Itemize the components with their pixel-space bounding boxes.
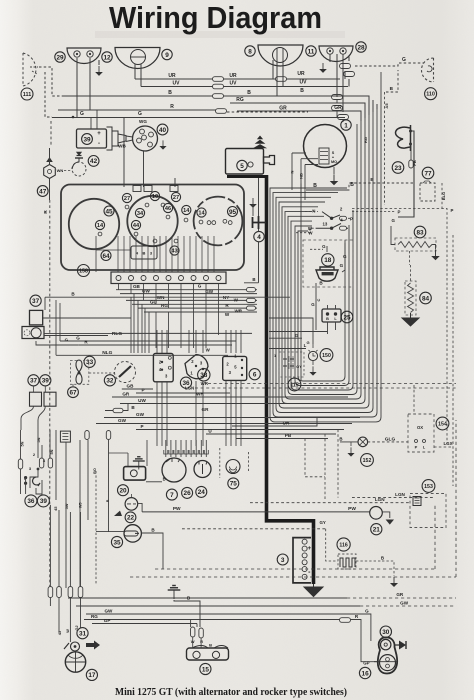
node 6 (249, 369, 260, 380)
svg-text:46: 46 (165, 206, 171, 212)
wiper motor 37 (30, 310, 43, 325)
svg-text:B: B (339, 436, 342, 441)
ground distributor (159, 140, 166, 149)
svg-text:27: 27 (124, 196, 130, 202)
dash 116 left (326, 529, 338, 561)
cluster internal verticals (118, 236, 214, 272)
horn 23 (396, 127, 410, 148)
svg-text:G: G (402, 57, 406, 63)
node 75 (228, 478, 239, 489)
wire 83 left up (391, 226, 395, 245)
svg-text:4: 4 (257, 234, 261, 241)
wire UW low (120, 403, 356, 405)
coil feed wires (91, 110, 97, 129)
strip pin (129, 276, 134, 281)
svg-text:45: 45 (58, 631, 62, 635)
starter motor 5 (226, 149, 264, 175)
starter terminal 4 (252, 216, 266, 229)
horn wire 2 (411, 144, 412, 161)
horn wire down (398, 131, 414, 217)
svg-text:1: 1 (274, 354, 276, 358)
dashed enc 2v (455, 420, 457, 577)
node 30 (380, 626, 391, 637)
dashed v305 (305, 439, 325, 477)
svg-text:P: P (398, 210, 401, 215)
svg-text:PB: PB (412, 160, 417, 166)
below pills verticals (50, 598, 80, 642)
svg-text:UR: UR (229, 73, 237, 79)
svg-text:G: G (365, 608, 369, 613)
lamp 30 bulb (381, 639, 391, 649)
center nested harness (270, 72, 381, 422)
svg-text:R: R (200, 639, 203, 644)
starter gnd wire (252, 205, 254, 216)
bottom left verticals (50, 505, 80, 586)
wire PW (142, 511, 369, 513)
node 12 (102, 52, 112, 62)
svg-text:WG: WG (139, 119, 147, 124)
scan smudge under title (95, 31, 345, 38)
wire GW1 (104, 417, 360, 419)
svg-text:UR: UR (297, 71, 305, 77)
pin circle (212, 221, 216, 225)
dashed LGX (434, 446, 453, 448)
warning lamp 152 (358, 437, 368, 447)
node 47 (37, 186, 48, 197)
ground 116 (390, 577, 398, 587)
distributor 40 (133, 126, 158, 151)
sw2 dash out (348, 212, 396, 219)
svg-text:77: 77 (424, 170, 432, 177)
vertical x316 (315, 283, 317, 330)
wire RG bottom (84, 619, 356, 621)
clock feed (312, 344, 314, 348)
vert x56 (55, 300, 57, 355)
strip pin (204, 276, 209, 281)
pin circle (134, 232, 138, 236)
svg-text:24: 24 (198, 489, 206, 496)
dash sides 75 (220, 448, 249, 478)
gauge right (194, 197, 243, 246)
wire RLG run (113, 332, 252, 334)
wire 35 B right (141, 533, 163, 569)
pill UW1 (213, 84, 224, 89)
clock 150 (308, 351, 317, 360)
dashed WR mid (208, 383, 456, 385)
dashed GW low (360, 605, 456, 607)
svg-text:44: 44 (133, 223, 140, 229)
node 154 (436, 417, 449, 430)
sidelamp left (67, 48, 101, 64)
svg-text:39: 39 (40, 498, 48, 505)
wire coil-dist WG (126, 136, 133, 137)
svg-text:WR: WR (201, 381, 209, 386)
wires 25 up (328, 305, 336, 309)
ground arrow 21 (386, 520, 394, 525)
strip pin (154, 276, 159, 281)
ground sidelamp L (95, 66, 103, 76)
node 39b (40, 375, 51, 386)
heater connectors top (60, 431, 70, 442)
node 25 (341, 311, 353, 323)
dashed LGN 2 (250, 502, 410, 504)
svg-text:GR: GR (396, 592, 404, 597)
dashed enc 1v (434, 505, 436, 569)
pin circle (125, 205, 129, 209)
unused5 (134, 464, 139, 471)
svg-text:A5: A5 (384, 103, 389, 109)
wire NLG run (56, 354, 228, 356)
svg-text:8: 8 (248, 48, 252, 55)
cigar lighter 20 (124, 467, 146, 481)
svg-text:RG: RG (91, 614, 98, 619)
dashed P run right (352, 209, 447, 445)
wire GB low (122, 388, 153, 390)
wire GLG (368, 441, 408, 443)
battery 3 (293, 538, 311, 583)
node 152 (361, 454, 374, 467)
svg-text:40: 40 (159, 127, 167, 134)
thick battery cable (267, 175, 314, 584)
wire R dashed cont (227, 111, 308, 113)
wire GR low (112, 396, 348, 398)
wire GW2 (96, 423, 352, 425)
svg-text:N: N (312, 209, 315, 214)
wire into 20b (109, 453, 129, 466)
svg-text:38: 38 (200, 372, 208, 379)
node 15 (200, 663, 211, 674)
svg-text:B: B (143, 251, 146, 256)
pin circle (223, 219, 227, 223)
u connector row (164, 450, 209, 454)
svg-text:Mini 1275 GT (with alternator: Mini 1275 GT (with alternator and rocker… (115, 687, 347, 698)
lamp 16 bulb (380, 655, 396, 671)
arrow above hex (46, 157, 53, 162)
svg-text:10: 10 (152, 194, 158, 200)
svg-text:LGN: LGN (185, 386, 194, 391)
sw2 dash in (305, 211, 318, 213)
svg-text:26: 26 (184, 490, 192, 497)
node 36 switch (180, 377, 191, 388)
svg-text:152: 152 (363, 458, 372, 464)
pin circle (184, 218, 188, 222)
svg-text:RG: RG (236, 97, 244, 103)
svg-text:35: 35 (113, 539, 121, 546)
stub y348 (269, 348, 306, 350)
dashed into 154 (413, 385, 415, 414)
wire P 393 (136, 392, 230, 394)
wire B top (62, 96, 369, 115)
stacked ground solenoid (254, 136, 266, 148)
washer pump 35 (124, 525, 141, 542)
node 84 (420, 292, 432, 304)
node 1 (341, 120, 351, 130)
wire R wiper (36, 341, 78, 345)
svg-text:PW: PW (173, 506, 181, 512)
wire GR top (237, 111, 361, 121)
svg-text:WN: WN (57, 168, 64, 173)
pill to lamp wires (193, 638, 201, 649)
svg-text:GY: GY (320, 520, 326, 525)
node 35 (111, 536, 122, 547)
connector d (332, 106, 343, 111)
svg-text:B: B (163, 476, 166, 481)
svg-text:14: 14 (97, 223, 104, 229)
svg-text:1: 1 (344, 122, 348, 129)
svg-text:WR: WR (234, 309, 242, 314)
pill heater c (106, 431, 110, 440)
ground 152 (347, 447, 354, 456)
wires sidelampR down (337, 54, 349, 112)
wire GW bottom solid (76, 605, 360, 607)
node 22 (125, 512, 136, 523)
node 37b (28, 375, 39, 386)
gauge mid (127, 196, 177, 246)
junction G (72, 116, 74, 118)
run end pill (247, 306, 256, 310)
fuel pump (316, 267, 338, 281)
wire G run (60, 340, 236, 342)
cluster connector strip (111, 272, 226, 284)
svg-text:LGN: LGN (375, 497, 385, 502)
svg-text:111: 111 (23, 92, 31, 98)
node 32 (104, 375, 115, 386)
wire wiper G (43, 317, 131, 319)
svg-text:20: 20 (119, 488, 127, 495)
battery cell (302, 546, 307, 551)
dashed BLG 77 (441, 183, 443, 209)
column switch 3 (316, 224, 348, 229)
pin circle (145, 203, 149, 207)
dashed wire horn B (39, 67, 62, 96)
ground 84 (402, 313, 419, 326)
svg-text:RG: RG (363, 137, 368, 143)
dashed box 154 (408, 414, 434, 452)
pill B (213, 94, 224, 99)
svg-text:5N: 5N (21, 441, 25, 446)
svg-text:25: 25 (343, 314, 351, 321)
svg-text:116: 116 (339, 542, 347, 548)
pill UR2 (276, 77, 287, 82)
svg-text:W5: W5 (79, 502, 83, 508)
dash 116 gnd (382, 561, 394, 576)
resistor 116 (338, 554, 356, 569)
svg-text:G: G (76, 336, 80, 341)
svg-text:G: G (311, 302, 315, 307)
coil tower (107, 127, 127, 150)
wire GU run (132, 303, 257, 305)
svg-text:18: 18 (324, 257, 332, 264)
node 46 (163, 203, 172, 212)
pin circle (199, 220, 203, 224)
dashed comp 75 (226, 460, 240, 474)
svg-text:W: W (234, 297, 239, 302)
svg-text:34: 34 (137, 211, 144, 217)
resistor 83 dashed box (395, 238, 436, 251)
stub y331 (269, 331, 328, 333)
pin circle (161, 203, 165, 207)
wire G top (52, 117, 345, 119)
resistor 84 dashed (405, 281, 416, 315)
washer valve 22 (125, 498, 138, 511)
sidelamp right (319, 46, 353, 62)
svg-text:23: 23 (394, 165, 402, 172)
svg-text:G: G (295, 333, 299, 338)
node 111 (21, 88, 33, 100)
svg-text:G: G (322, 244, 326, 249)
svg-text:PW: PW (348, 506, 356, 512)
svg-text:B: B (326, 317, 329, 321)
unused4 (50, 592, 52, 596)
pin circle (207, 221, 211, 225)
dashed A5 vertical (384, 92, 386, 205)
ground lamp15 area (168, 586, 181, 600)
wire B 152 (340, 441, 358, 443)
dashed RO vertical (95, 471, 97, 585)
gauge left (69, 199, 119, 249)
stub y318 (269, 318, 313, 344)
strip pin (179, 276, 184, 281)
node 36 low (25, 495, 37, 507)
node 34 (135, 208, 144, 217)
svg-text:GW: GW (136, 412, 145, 417)
pill 15 W (191, 627, 195, 637)
svg-text:+: + (97, 131, 101, 137)
svg-text:LGX: LGX (443, 441, 452, 446)
svg-text:UV: UV (300, 80, 308, 86)
svg-text:C: C (316, 298, 321, 301)
arrow 30 (395, 644, 399, 646)
node 42 (88, 156, 99, 167)
svg-text:B: B (381, 556, 384, 561)
svg-text:B: B (247, 90, 251, 96)
pill h1 (18, 459, 22, 469)
svg-text:6: 6 (253, 372, 257, 379)
cluster wire left (96, 236, 131, 272)
svg-text:P: P (451, 208, 454, 213)
wire P low (136, 429, 344, 431)
svg-text:110: 110 (426, 92, 435, 98)
svg-text:30: 30 (382, 629, 390, 636)
node 95 (228, 207, 238, 217)
node 8 (245, 46, 255, 56)
svg-text:39: 39 (42, 378, 50, 385)
node 7 (166, 489, 177, 500)
node 14a (95, 220, 104, 229)
bottom pill (78, 587, 83, 598)
svg-text:B: B (252, 277, 255, 282)
instrument cluster frame (61, 185, 244, 271)
svg-text:RO: RO (93, 468, 97, 474)
center vertical N (300, 184, 302, 382)
headlamp right 8 (258, 45, 303, 66)
cluster inner box left (131, 246, 157, 259)
wire B dynamo (306, 189, 347, 191)
brake unit 25 (322, 309, 341, 322)
battery cell (302, 574, 307, 579)
wire UW run (120, 293, 257, 295)
wire R run (78, 344, 232, 346)
node 28 (356, 42, 366, 52)
dashed R vertical left (50, 121, 51, 592)
fan propeller (76, 360, 82, 384)
dashed down right (452, 235, 454, 486)
flasher 42 (75, 152, 83, 162)
svg-text:12: 12 (103, 54, 111, 61)
svg-text:GLG: GLG (385, 436, 396, 442)
battery ground (304, 584, 323, 597)
svg-text:33: 33 (86, 359, 94, 366)
svg-text:S: S (332, 151, 335, 155)
cluster top feeds (124, 118, 175, 188)
dashed box fan (70, 361, 88, 385)
svg-text:84: 84 (422, 295, 430, 302)
connector b (344, 72, 355, 77)
svg-text:14: 14 (183, 208, 190, 214)
svg-text:5N: 5N (50, 449, 54, 454)
node 64 (101, 251, 111, 261)
sw3 dash in (296, 228, 316, 233)
dashed box 115 (279, 352, 304, 377)
svg-text:29: 29 (56, 54, 64, 61)
svg-text:RG: RG (161, 303, 168, 308)
svg-text:P: P (350, 216, 353, 221)
svg-text:95: 95 (229, 209, 237, 216)
svg-text:11: 11 (308, 48, 315, 55)
battery cell (302, 567, 307, 572)
dashed box 153 (410, 494, 446, 528)
svg-text:150: 150 (322, 353, 331, 359)
lamp housing 16/30 (378, 637, 397, 673)
stub 67 (72, 384, 74, 386)
node 33 (84, 356, 95, 367)
svg-text:G: G (198, 283, 202, 288)
node 5 (237, 160, 247, 170)
node 29 (55, 52, 65, 62)
svg-text:9: 9 (165, 52, 169, 59)
node 153 (422, 480, 435, 493)
wire UR low (232, 418, 317, 426)
wire WR run (144, 311, 257, 313)
svg-text:158: 158 (79, 268, 88, 274)
svg-text:PB: PB (285, 433, 292, 438)
left lower verticals a (21, 430, 89, 588)
svg-text:GP: GP (104, 618, 111, 623)
dynamo wires left (301, 159, 318, 200)
horn pill (409, 160, 413, 168)
dashed LGN 1 (352, 497, 434, 499)
dynamo wire N (292, 153, 306, 190)
node 11 (306, 46, 316, 56)
wire sidelampL 1 (76, 58, 78, 118)
battery cell (302, 553, 307, 558)
lighting switch 36 (153, 354, 173, 382)
node 83 (414, 226, 426, 238)
svg-text:W: W (66, 629, 70, 633)
svg-text:P: P (415, 445, 418, 450)
svg-text:WB: WB (118, 144, 126, 149)
svg-text:42: 42 (90, 158, 98, 165)
dash 83 to 84 (409, 251, 411, 265)
bottom pill (68, 587, 73, 598)
svg-text:G: G (340, 263, 344, 268)
wire 20 to 7 (146, 481, 162, 483)
wires headlampL down (135, 64, 141, 87)
connector c (332, 95, 343, 100)
dash to 84 (410, 265, 412, 281)
svg-text:5N: 5N (37, 437, 41, 442)
node 10 (150, 191, 159, 200)
